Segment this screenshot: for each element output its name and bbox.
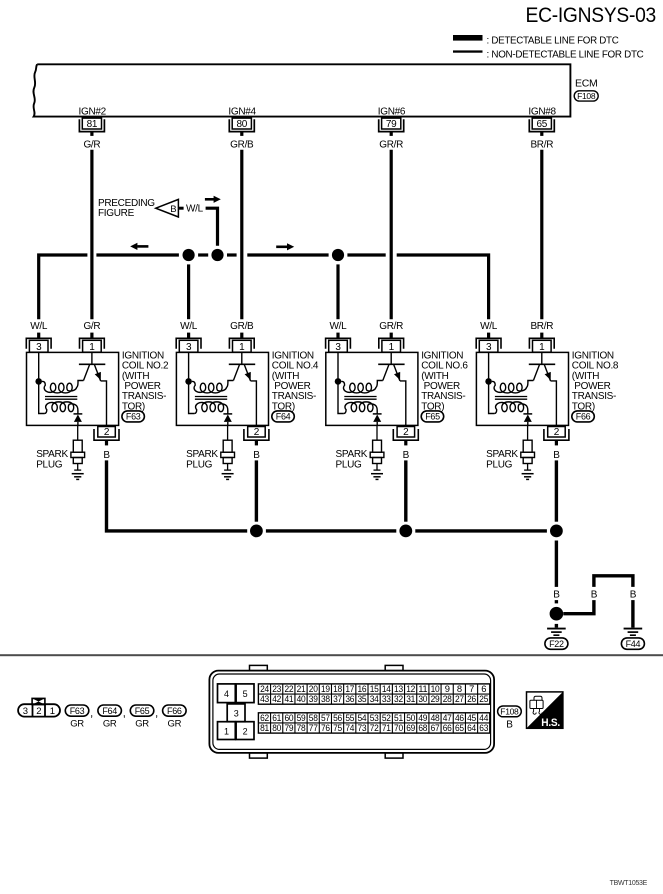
svg-text:GR: GR [103,719,117,730]
transformer primary winding NO.8 [492,381,534,393]
wire left leg to secondary NO.8 [489,381,495,413]
wire GR/R stub into coil pin 1 [390,333,393,339]
svg-text:81: 81 [87,119,98,130]
svg-text:39: 39 [309,693,318,704]
svg-text:3: 3 [486,342,492,353]
wire left leg to secondary NO.6 [338,381,344,413]
svg-text:40: 40 [297,693,306,704]
spark plug label NO.6 [336,449,368,470]
ignition coil NO.6 box [326,352,418,425]
svg-text:,: , [155,707,158,719]
svg-text:74: 74 [345,722,354,733]
svg-text:B: B [506,720,513,731]
ECM connector body [209,665,494,758]
svg-text:66: 66 [443,722,452,733]
title EC-IGNSYS-03 [526,3,657,27]
svg-text:GR: GR [135,719,149,730]
ground F44 symbol [624,629,643,636]
wire W/L bus dash after junction B [227,253,237,256]
transformer primary winding NO.4 [192,381,234,393]
ignition coil NO.2 pin 2 [94,427,119,446]
svg-text:2: 2 [554,427,560,438]
connector F22 oval [545,638,568,649]
svg-text:2: 2 [104,427,110,438]
svg-text:F64: F64 [276,412,291,422]
svg-text:GR/R: GR/R [379,140,403,151]
wire B to junction G [555,600,558,603]
spark plug label NO.4 [186,449,218,470]
svg-text:G/R: G/R [83,140,100,151]
ECM connector pin grid upper block [258,684,489,704]
ignition coil NO.8 pin 2 [544,427,569,446]
svg-text:B: B [103,450,110,461]
arrow right on bus [276,243,294,250]
wire W/L stub into coil NO.6 pin 3 [336,333,339,339]
ignition coil NO.2 box [27,352,119,425]
wire label W/L at coil NO.4 [180,321,198,332]
wire label GR/B row1 [230,140,254,151]
wire B down to ground F44 [631,600,634,628]
connector oval F66 with GR [163,705,187,730]
wire W/L stub into coil NO.8 pin 3 [487,333,490,339]
svg-text:F108: F108 [500,706,519,716]
transistor Q NO.8 [529,352,557,425]
transformer secondary winding NO.4 [194,402,228,414]
svg-text:71: 71 [382,722,391,733]
svg-text:F66: F66 [576,412,591,422]
spark plug at coil NO.8 [521,425,535,470]
spark plug at coil NO.4 [221,425,235,470]
svg-text:42: 42 [272,693,281,704]
coil label NO.6 [421,351,468,413]
svg-text:78: 78 [297,722,306,733]
svg-text:33: 33 [382,693,391,704]
svg-text:65: 65 [537,119,548,130]
svg-text:EC-IGNSYS-03: EC-IGNSYS-03 [526,3,657,27]
svg-text:73: 73 [358,722,367,733]
wire label B at F44 branch right [630,589,637,600]
ignition coil NO.4 pin 3 internal wire [188,352,190,378]
figure code [610,880,648,887]
connector F44 oval [621,638,644,649]
ignition coil NO.6 pin 3 [326,338,351,353]
diode to spark plug NO.4 [223,414,232,426]
svg-text:32: 32 [394,693,403,704]
svg-text:5: 5 [243,689,248,699]
ignition coil NO.8 pin 3 [476,338,501,353]
wire label B at coil NO.8 [553,450,560,461]
svg-text:PLUG: PLUG [186,459,213,470]
ignition coil NO.2 pin 3 [26,338,51,353]
svg-text:B: B [403,450,410,461]
wire W/L bus left segment with corner down to coil NO.2 pin 3 [39,255,88,319]
coil label NO.4 [272,351,319,413]
svg-text:1: 1 [89,342,95,353]
svg-text:63: 63 [479,722,488,733]
svg-text:72: 72 [370,722,379,733]
spark plug at coil NO.6 [370,425,384,470]
svg-text:B: B [170,204,176,215]
svg-text:TBWT1053E: TBWT1053E [610,880,648,887]
svg-text:B: B [591,589,598,600]
svg-text:1: 1 [50,706,55,717]
svg-text:1: 1 [239,342,245,353]
svg-text:W/L: W/L [480,321,498,332]
wire label W/L at coil NO.8 [480,321,498,332]
preceding figure label [98,198,155,219]
svg-text:3: 3 [234,709,239,719]
svg-text:3: 3 [335,342,341,353]
svg-text:68: 68 [418,722,427,733]
svg-text:31: 31 [406,693,415,704]
wire B from coil NO.6 down [404,460,407,521]
svg-text:1: 1 [389,342,395,353]
svg-text:29: 29 [431,693,440,704]
ignition coil NO.8 pin 3 internal wire [488,352,490,378]
legend non-detectable line text [487,50,644,61]
svg-text:B: B [630,589,637,600]
wire G/R stub into coil pin 1 [90,333,93,339]
wire label B at coil NO.2 [103,450,110,461]
svg-text:ECM: ECM [575,78,597,90]
wire label GR/R row2 [379,321,403,332]
svg-text:F65: F65 [135,706,150,716]
ignition coil NO.8 box [476,352,568,425]
ignition coil NO.4 box [176,352,268,425]
transformer core NO.2 [45,397,77,400]
wire label BR/R row1 [530,140,553,151]
transformer secondary winding NO.6 [344,402,378,414]
section separator line [0,654,663,656]
connector oval F64 with GR [98,705,126,730]
svg-text:70: 70 [394,722,403,733]
wire label B at coil NO.4 [253,450,260,461]
wire W/L from preceding figure to bus [206,208,218,246]
connector F108 oval at ECM [574,91,598,101]
svg-text:77: 77 [309,722,318,733]
ignition coil NO.2 pin 1 [80,338,105,353]
ECM connector cell 4 [218,684,236,703]
ground at spark plug NO.8 [522,474,534,480]
spark plug label NO.8 [486,449,518,470]
ECM module box (torn left edge) [33,64,570,116]
connector oval F65 with GR [130,705,158,730]
wire label B at F44 branch left [591,589,598,600]
H.S. harness symbol [527,692,563,729]
svg-text:F65: F65 [425,412,440,422]
ground at spark plug NO.6 [371,474,383,480]
wire GR/B stub into coil pin 1 [240,333,243,339]
transistor Q NO.2 [79,352,107,425]
transistor Q NO.4 [229,352,257,425]
ECM connector cell 3 [227,704,245,722]
svg-text:F63: F63 [126,412,141,422]
svg-text:: DETECTABLE LINE FOR DTC: : DETECTABLE LINE FOR DTC [487,36,619,47]
svg-text:W/L: W/L [330,321,348,332]
wire B from coil NO.8 down [555,460,558,521]
connector oval F63 [122,411,144,422]
svg-text:BR/R: BR/R [530,321,553,332]
svg-text:1: 1 [224,727,229,737]
svg-text:,: , [90,707,93,719]
wire G/R from pin 81 down to coil [90,150,93,319]
svg-text:PLUG: PLUG [336,459,363,470]
wire BR/R stub into coil pin 1 [540,333,543,339]
ECM pin 79 (IGN#6) [378,107,406,136]
wire label BR/R row2 [530,321,553,332]
legend detectable line symbol [453,35,483,41]
wire from junction G to F44 branch [563,600,594,614]
svg-text:3: 3 [36,342,42,353]
wire GR/B from pin 80 down to coil [240,150,243,319]
wire left leg to secondary NO.2 [39,381,45,413]
svg-text:F108: F108 [577,91,596,101]
ECM connector pin grid lower block [258,713,489,733]
svg-text:79: 79 [284,722,293,733]
svg-text:43: 43 [260,693,269,704]
svg-text:F63: F63 [70,706,85,716]
svg-text:81: 81 [260,722,269,733]
coil label NO.2 [122,351,169,413]
ignition coil NO.2 pin 3 internal wire [38,352,40,378]
svg-text:H.S.: H.S. [541,717,560,729]
ECM connector pin numbers [260,683,488,733]
transformer secondary winding NO.2 [44,402,78,414]
spark plug label NO.2 [36,449,68,470]
svg-text:35: 35 [358,693,367,704]
wire label GR/B row2 [230,321,254,332]
node primary junction dot NO.2 [35,378,42,385]
svg-text:GR: GR [168,719,182,730]
svg-text:4: 4 [224,689,229,699]
svg-text:2: 2 [36,706,41,717]
ignition coil NO.4 pin 3 [176,338,201,353]
spark plug at coil NO.2 [71,425,85,470]
wire W/L bus segment 4 [347,253,385,256]
ECM pin 81 (IGN#2) [79,107,107,136]
small connector 3-2-1 view [18,698,60,717]
preceding figure triangle B [156,199,184,217]
svg-text:34: 34 [370,693,379,704]
wire label W/L at coil NO.2 [30,321,48,332]
wire W/L bus segment 2 [96,253,178,256]
junction dot D on B bus [250,525,263,538]
ground at spark plug NO.4 [222,474,234,480]
connector oval F63 with GR [65,705,93,730]
svg-text:38: 38 [321,693,330,704]
svg-text:27: 27 [455,693,464,704]
junction dot B on W/L bus [211,249,223,261]
transformer primary winding NO.2 [42,381,84,393]
wire label W/L preceding figure [186,204,204,215]
svg-text:GR/B: GR/B [230,321,254,332]
svg-text:: NON-DETECTABLE LINE FOR DTC: : NON-DETECTABLE LINE FOR DTC [487,50,644,61]
wire label B at ground branch 1 [553,589,560,600]
svg-text:64: 64 [467,722,476,733]
wire label GR/R row1 [379,140,403,151]
ECM pin 65 (IGN#8) [528,107,556,136]
svg-text:PLUG: PLUG [486,459,513,470]
wire left leg to secondary NO.4 [189,381,195,413]
ECM connector cell 5 [236,684,254,703]
svg-text:41: 41 [284,693,293,704]
svg-text:65: 65 [455,722,464,733]
ignition coil NO.8 pin 1 [529,338,554,353]
legend non-detectable line symbol [453,50,483,52]
ignition coil NO.6 pin 1 [379,338,404,353]
svg-text:FIGURE: FIGURE [98,208,135,219]
wire label B at coil NO.6 [403,450,410,461]
svg-text:2: 2 [254,427,260,438]
svg-text:80: 80 [272,722,281,733]
junction dot E on B bus [399,525,412,538]
connector oval F64 [272,411,295,422]
legend detectable line text [487,36,619,47]
svg-text:25: 25 [479,693,488,704]
arrow right above W/L wire [205,196,221,203]
svg-text:IGN#8: IGN#8 [528,107,556,118]
svg-text:37: 37 [333,693,342,704]
transformer core NO.6 [344,397,376,400]
svg-text:GR: GR [70,719,84,730]
svg-text:W/L: W/L [30,321,48,332]
wire stub junction G to ground F22 [555,624,558,628]
svg-text:IGN#6: IGN#6 [378,107,406,118]
svg-text:F44: F44 [626,639,641,649]
svg-text:3: 3 [186,342,192,353]
svg-text:1: 1 [539,342,545,353]
svg-text:F66: F66 [167,706,182,716]
node primary junction dot NO.8 [485,378,492,385]
ground at spark plug NO.2 [72,474,84,480]
svg-text:F22: F22 [549,639,564,649]
wire F44 branch top bar [594,576,633,587]
diode to spark plug NO.2 [74,414,83,426]
svg-text:76: 76 [321,722,330,733]
svg-text:3: 3 [23,706,28,717]
svg-text:2: 2 [243,727,248,737]
junction dot G at ground [550,607,564,621]
wire W/L bus dash between junctions [198,253,208,256]
transformer secondary winding NO.8 [494,402,528,414]
diode to spark plug NO.8 [523,414,532,426]
junction dot F on B bus [550,525,563,538]
connector F108 oval bottom [498,706,522,731]
svg-text:69: 69 [406,722,415,733]
wire B below junction F [555,541,558,587]
connector oval F65 [421,411,444,422]
svg-text:75: 75 [333,722,342,733]
ignition coil NO.4 pin 1 [229,338,254,353]
svg-text:GR/R: GR/R [379,321,403,332]
svg-text:B: B [553,589,560,600]
wire W/L bus segment 3 [247,253,328,256]
svg-text:IGN#4: IGN#4 [228,107,256,118]
svg-text:W/L: W/L [186,204,204,215]
wire label W/L at coil NO.6 [330,321,348,332]
transistor Q NO.6 [378,352,406,425]
wire BR/R from pin 65 down to coil [540,150,543,319]
svg-text:B: B [253,450,260,461]
junction dot A on W/L bus [183,249,195,261]
ECM connector cell 1 [218,722,236,740]
svg-text:PLUG: PLUG [36,459,63,470]
ECM pin 80 (IGN#4) [228,107,256,136]
node primary junction dot NO.4 [185,378,192,385]
svg-text:G/R: G/R [83,321,100,332]
svg-text:30: 30 [418,693,427,704]
connector oval F66 [572,411,595,422]
svg-text:,: , [123,707,126,719]
wire label G/R row1 [83,140,100,151]
wire B bus segment 2 [415,529,547,532]
wire B bus segment 1 [266,529,396,532]
wire B from coil NO.2 with corner to bus [107,460,248,531]
wire W/L stub into coil NO.2 pin 3 [37,333,40,339]
ECM connector cell 2 [236,722,254,740]
svg-text:28: 28 [443,693,452,704]
wire W/L from junction A down to coil NO.4 pin 3 [187,264,190,319]
arrow left on bus [130,243,148,250]
svg-text:IGN#2: IGN#2 [79,107,107,118]
svg-text:BR/R: BR/R [530,140,553,151]
transformer core NO.8 [495,397,527,400]
svg-text:67: 67 [431,722,440,733]
svg-text:79: 79 [386,119,397,130]
svg-text:GR/B: GR/B [230,140,254,151]
svg-text:2: 2 [403,427,409,438]
ground F22 symbol [547,629,566,636]
wire GR/R from pin 79 down to coil [390,150,393,319]
svg-text:F64: F64 [102,706,117,716]
svg-text:26: 26 [467,693,476,704]
svg-text:36: 36 [345,693,354,704]
svg-text:B: B [553,450,560,461]
transformer primary winding NO.6 [341,381,383,393]
junction dot C on W/L bus [332,249,344,261]
wire W/L from junction C down to coil NO.6 pin 3 [336,264,339,319]
node primary junction dot NO.6 [335,378,342,385]
wire B from coil NO.4 down [255,460,258,521]
ignition coil NO.4 pin 2 [244,427,269,446]
svg-text:80: 80 [237,119,248,130]
ignition coil NO.6 pin 3 internal wire [337,352,339,378]
wire W/L stub into coil NO.4 pin 3 [187,333,190,339]
ECM label [575,78,597,90]
coil label NO.8 [572,351,619,413]
diode to spark plug NO.6 [373,414,382,426]
transformer core NO.4 [195,397,227,400]
ignition coil NO.6 pin 2 [393,427,418,446]
svg-text:W/L: W/L [180,321,198,332]
wire label G/R row2 [83,321,100,332]
wire W/L bus right segment with corner down to coil NO.8 pin 3 [397,255,489,319]
